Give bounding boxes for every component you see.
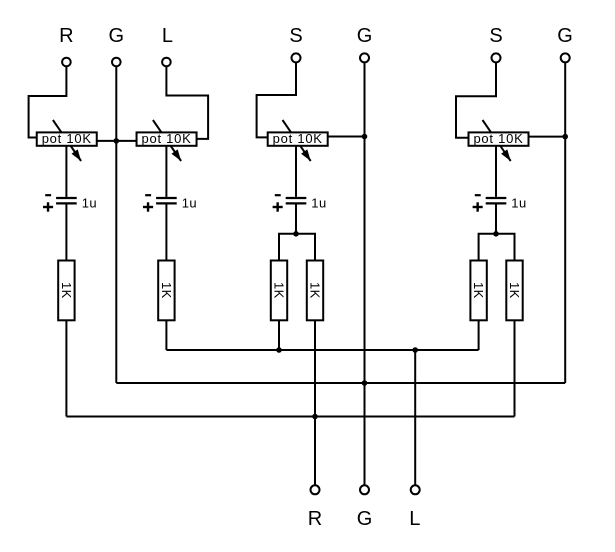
wire bus3 horizontal	[66, 416, 514, 418]
svg-text:pot 10K: pot 10K	[42, 131, 92, 146]
wire split node to resistors R5 R6	[479, 234, 515, 261]
wire resistor R4 down to output R terminal	[314, 320, 316, 484]
wire resistor R5 down to bus1	[478, 320, 480, 350]
wire pot P4 right terminal to ground line junction	[529, 136, 566, 138]
capacitor C2 minus polarity mark	[145, 194, 151, 196]
wire input S to pot P3 left terminal	[257, 62, 296, 137]
potentiometer P1 wiper arrow	[53, 120, 81, 161]
potentiometer P4 body	[469, 132, 529, 145]
svg-text:1u: 1u	[511, 196, 526, 211]
svg-text:pot 10K: pot 10K	[473, 131, 523, 146]
capacitor C4 plus polarity mark	[473, 206, 483, 208]
resistor R2 body	[158, 261, 174, 321]
wire capacitor C4 to split node	[495, 205, 497, 234]
svg-text:R: R	[59, 25, 73, 47]
resistor R1 body	[58, 261, 74, 321]
capacitor C1 minus polarity mark	[45, 194, 51, 196]
wire ground G middle vertical	[364, 62, 366, 383]
junction output L drop on bus1	[412, 347, 418, 353]
svg-text:1K: 1K	[59, 282, 74, 299]
wire ground G right vertical	[564, 62, 566, 383]
wire pot P3 right terminal to ground line junction	[328, 136, 365, 138]
potentiometer P3 wiper arrow	[283, 120, 311, 161]
input terminal L	[162, 58, 171, 67]
wire split node to resistors R3 R4	[279, 234, 315, 261]
wire ground G left vertical	[115, 66, 117, 383]
wire capacitor C1 to resistor R1	[65, 205, 67, 261]
svg-text:1K: 1K	[272, 282, 287, 299]
wire input S to pot P4 left terminal	[456, 62, 496, 137]
wire pot P3 wiper to capacitor C3	[295, 146, 297, 197]
junction split node C4	[493, 231, 499, 237]
junction output R drop on bus3	[312, 414, 318, 420]
potentiometer P3 body	[268, 132, 328, 145]
svg-text:1u: 1u	[182, 196, 197, 211]
junction output G drop on ground bus	[362, 380, 368, 386]
wire pot P4 wiper to capacitor C4	[495, 146, 497, 197]
svg-text:1u: 1u	[82, 196, 97, 211]
svg-text:G: G	[557, 25, 573, 47]
wire resistor R2 down to bus1	[165, 320, 167, 350]
svg-text:S: S	[489, 25, 502, 47]
wire pot P1 right terminal to ground line junction	[97, 140, 137, 142]
resistor R3 body	[271, 261, 287, 321]
wire capacitor C2 to resistor R2	[165, 205, 167, 261]
wire resistor R1 down to bus3	[65, 320, 67, 416]
input terminal S	[492, 53, 501, 62]
potentiometer P2 body	[137, 132, 197, 145]
wire input L to pot P2 right terminal	[166, 66, 208, 139]
svg-text:pot 10K: pot 10K	[273, 131, 323, 146]
potentiometer P1 body	[37, 132, 97, 145]
resistor R5 body	[470, 261, 486, 321]
svg-text:1K: 1K	[159, 282, 174, 299]
junction pot P3 lead on ground line	[362, 134, 368, 140]
svg-text:1u: 1u	[311, 196, 326, 211]
input terminal G	[561, 53, 570, 62]
input terminal R	[62, 58, 71, 67]
wire resistor R6 down to bus3	[514, 320, 516, 416]
capacitor C1 plus polarity mark	[43, 206, 53, 208]
svg-text:1K: 1K	[308, 282, 323, 299]
junction pot P1/P2 leads on ground line	[114, 138, 120, 144]
wire bus1 down to output L terminal	[414, 350, 416, 485]
junction R3 on bus1	[276, 347, 282, 353]
wire resistor R3 down to bus1	[278, 320, 280, 350]
capacitor C3 plates	[286, 197, 307, 199]
input terminal G	[360, 53, 369, 62]
wire ground bus down to output G terminal	[364, 383, 366, 485]
svg-text:pot 10K: pot 10K	[142, 131, 192, 146]
capacitor C1 plates	[56, 197, 77, 199]
junction pot P4 lead on ground line	[562, 134, 568, 140]
svg-text:S: S	[289, 25, 302, 47]
input terminal G	[112, 58, 121, 67]
capacitor C2 plus polarity mark	[143, 206, 153, 208]
svg-text:R: R	[308, 508, 322, 530]
svg-text:1K: 1K	[471, 282, 486, 299]
output terminal R	[311, 485, 320, 494]
output terminal L	[411, 485, 420, 494]
wire pot P1 wiper to capacitor C1	[65, 146, 67, 197]
wire ground bus horizontal	[116, 382, 565, 384]
svg-text:G: G	[357, 25, 373, 47]
capacitor C3 plus polarity mark	[273, 206, 283, 208]
potentiometer P2 wiper arrow	[153, 120, 181, 161]
capacitor C4 minus polarity mark	[475, 194, 481, 196]
input terminal S	[292, 53, 301, 62]
svg-text:1K: 1K	[507, 282, 522, 299]
svg-text:G: G	[357, 508, 373, 530]
wire pot P2 wiper to capacitor C2	[165, 146, 167, 197]
resistor R4 body	[307, 261, 323, 321]
output terminal G	[360, 485, 369, 494]
resistor R6 body	[506, 261, 522, 321]
capacitor C4 plates	[486, 197, 507, 199]
svg-text:L: L	[162, 25, 173, 47]
svg-text:G: G	[109, 25, 125, 47]
wire capacitor C3 to split node	[295, 205, 297, 234]
capacitor C3 minus polarity mark	[275, 194, 281, 196]
junction split node C3	[293, 231, 299, 237]
potentiometer P4 wiper arrow	[483, 120, 511, 161]
wire input R to pot P1 left terminal	[29, 66, 67, 137]
wire bus1 horizontal	[166, 349, 478, 351]
capacitor C2 plates	[156, 197, 177, 199]
svg-text:L: L	[409, 508, 420, 530]
